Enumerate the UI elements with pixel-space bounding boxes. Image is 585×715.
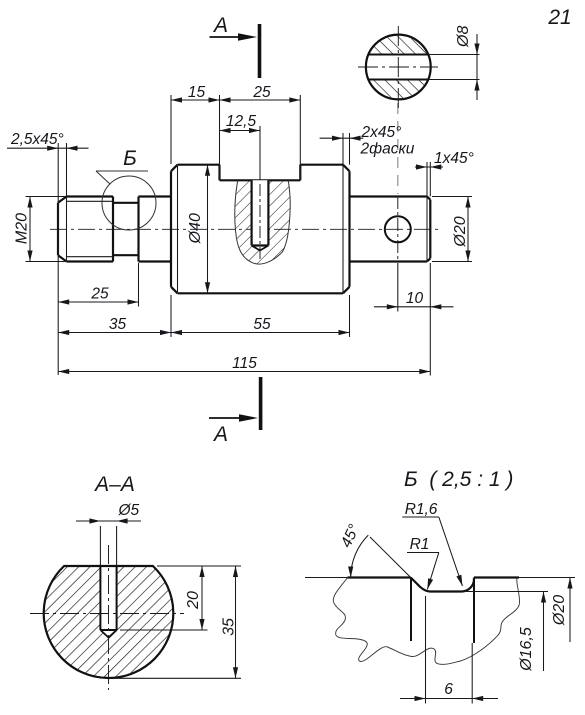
section A-A hatch [40, 545, 180, 682]
right journal chamfer edge line [426, 197, 428, 262]
svg-text:15: 15 [188, 84, 206, 101]
cross hole vertical centerline grey [397, 103, 399, 194]
right journal O20 outline [350, 197, 431, 262]
dimension O40 [187, 165, 210, 294]
top end view centerline horizontal [358, 66, 438, 68]
svg-text:2,5x45°: 2,5x45° [10, 131, 64, 148]
section A-A hole walls [100, 566, 116, 630]
page number 21 [547, 6, 571, 29]
svg-text:115: 115 [232, 355, 257, 372]
detail B groove profile [411, 578, 474, 592]
thread chamfer edge line [66, 197, 68, 262]
dimension O5 [76, 502, 141, 566]
cross hole O8 circle [385, 216, 411, 242]
svg-text:Б ( 2,5 : 1 ): Б ( 2,5 : 1 ) [404, 468, 513, 491]
section A-A hole white interior [100, 565, 116, 638]
collar outline [139, 197, 172, 262]
dimension 35 [58, 295, 171, 337]
broken-out section wavy boundary [235, 181, 290, 265]
dimension 20 depth [120, 566, 241, 630]
section A-A hole drill tip [100, 630, 116, 638]
detail B top surface right [474, 576, 519, 578]
svg-text:10: 10 [406, 290, 424, 307]
label A bottom [212, 423, 228, 446]
dimension 10 [374, 263, 454, 376]
svg-text:A: A [212, 423, 228, 446]
body O40 outline [171, 165, 350, 294]
svg-text:Ø5: Ø5 [118, 502, 140, 519]
dimension 35 height [113, 566, 241, 678]
svg-text:2фаски: 2фаски [360, 141, 415, 158]
svg-text:Ø8: Ø8 [455, 26, 472, 48]
top end view hatch lower segment [364, 80, 432, 102]
svg-text:21: 21 [547, 6, 571, 29]
detail callout leader [96, 171, 148, 184]
dimension O20 right [432, 197, 472, 262]
section A-A centerline vertical [108, 545, 110, 690]
svg-text:20: 20 [185, 591, 202, 610]
dimension 25 top [220, 84, 301, 180]
detail B title [404, 468, 513, 491]
svg-text:Ø40: Ø40 [187, 213, 204, 244]
hole O5 drill tip [252, 246, 269, 251]
dimension 2x45 2 chamfers [320, 124, 415, 165]
svg-text:A–A: A–A [93, 473, 135, 496]
top end view hole O8 edges [368, 55, 428, 80]
section A-A outline [44, 566, 174, 678]
dimension M20 [14, 197, 67, 262]
svg-text:Ø20: Ø20 [551, 595, 568, 626]
detail B label R1,6 [402, 501, 462, 586]
svg-text:Ø20: Ø20 [452, 216, 469, 247]
detail B break line [333, 578, 519, 665]
dimension 115 [58, 355, 430, 374]
svg-text:6: 6 [444, 681, 453, 698]
detail B left edge projection line [410, 578, 412, 642]
svg-text:A: A [212, 14, 228, 37]
thread section M20 outline [58, 197, 113, 262]
top end view circle [366, 35, 431, 100]
svg-text:12,5: 12,5 [226, 113, 257, 130]
dimension 15 [171, 84, 300, 180]
broken-out section hatch [235, 181, 290, 265]
section A-A centerline horizontal [30, 613, 184, 615]
svg-text:R1: R1 [410, 536, 430, 553]
detail B dimension 6 [400, 596, 498, 704]
body chamfer edge lines [178, 165, 344, 294]
detail B dimension O16,5 [466, 592, 548, 672]
thread root lines [67, 201, 114, 256]
groove (neck) outline [113, 203, 139, 255]
dimension 1x45 [415, 150, 474, 197]
section A-A title [93, 473, 135, 496]
dimension 55 [171, 295, 350, 337]
hole O5 centerline [259, 184, 261, 262]
detail B top surface left [348, 576, 411, 578]
detail B 45 degree dimension [305, 522, 411, 578]
svg-text:35: 35 [221, 618, 238, 636]
svg-text:Ø16,5: Ø16,5 [518, 627, 535, 672]
top end view centerline vertical [397, 26, 399, 108]
svg-text:Б: Б [123, 147, 137, 170]
svg-text:25: 25 [252, 84, 271, 101]
dimension 2,5x45 [7, 131, 89, 375]
dimension 12,5 [220, 113, 261, 180]
cross hole vertical centerline black [397, 196, 399, 262]
detail B label R1 [407, 536, 439, 590]
svg-text:55: 55 [253, 316, 271, 333]
svg-text:M20: M20 [14, 213, 31, 244]
detail B dimension O20 [519, 578, 575, 643]
hole O5 white interior [252, 180, 269, 250]
section line A bottom [209, 377, 261, 430]
label B callout [123, 147, 137, 170]
svg-text:R1,6: R1,6 [405, 501, 438, 518]
top end view hatch upper segment [364, 33, 432, 55]
detail callout circle B [102, 176, 156, 230]
detail B right edge projection line [473, 579, 475, 643]
svg-text:2x45°: 2x45° [361, 124, 402, 141]
dimension O8 [428, 26, 479, 100]
hole O5 walls [252, 180, 269, 245]
milled flat notch [220, 165, 301, 181]
main shaft centerline [50, 228, 440, 230]
label A top [212, 14, 228, 37]
svg-text:25: 25 [90, 286, 109, 303]
section line A top [210, 24, 260, 78]
svg-text:35: 35 [109, 316, 127, 333]
svg-text:1x45°: 1x45° [434, 150, 474, 167]
dimension 25 bottom [58, 263, 138, 307]
